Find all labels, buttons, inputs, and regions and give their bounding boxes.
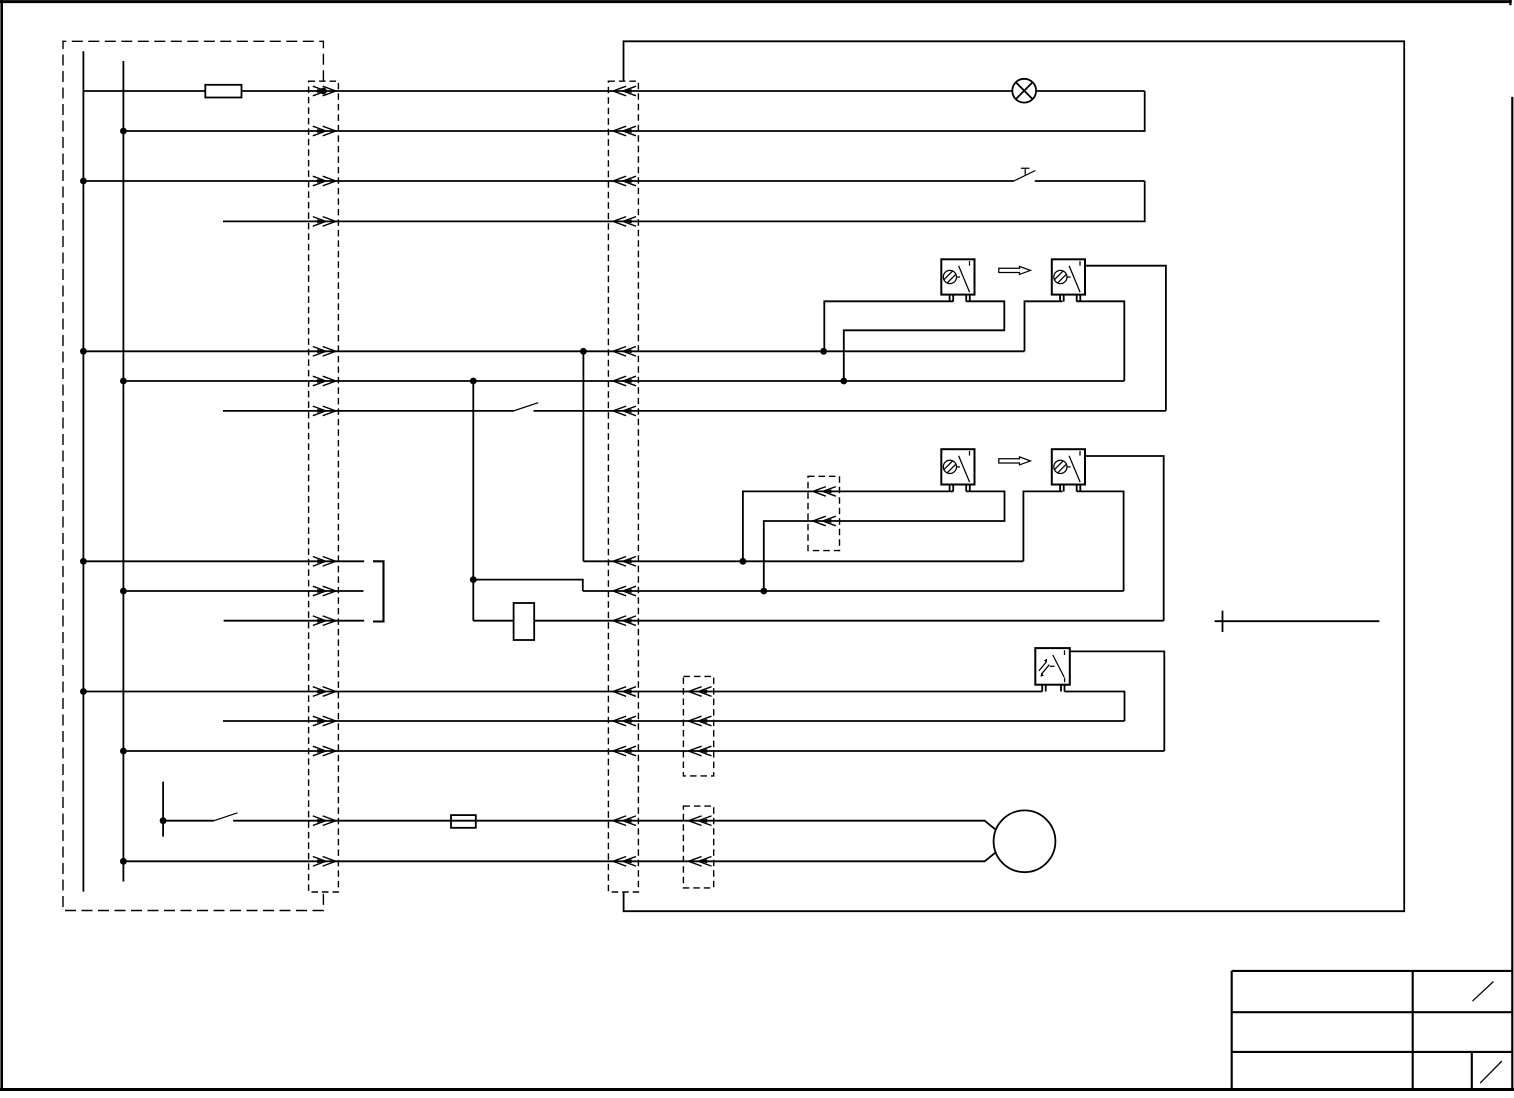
window-lift switch S6 [941,449,974,491]
title block slash (revision cell) [1473,982,1494,1002]
wire jog to row9 [473,580,583,591]
connector pin X1 r3 (arrow) [313,176,336,186]
motor M1 [994,810,1056,872]
reference cross mark [1215,611,1380,632]
wire row5 to switch S5 terminal a [1025,301,1063,351]
connector pin X2 r6 (arrow) [613,376,636,386]
connector pin X3b r14 (arrow) [689,816,712,826]
connector pin X2 r15 (arrow) [613,857,636,867]
actuation arrow (unit 1) [999,266,1031,274]
connector strip X1 (dashed) [309,81,339,892]
wire row 7 [223,410,1166,412]
sheet border left [0,0,3,1091]
wire row 8 [83,560,1023,562]
junction row5/link [580,348,587,355]
wire link row5 to row8 [582,351,584,561]
junction bus2/row13 [120,748,127,755]
connector pin X1 r2 (arrow) [313,126,336,136]
connector pin X2 r13 (arrow) [613,746,636,756]
child-lock switch S8 [1035,648,1070,691]
title block frame [1232,971,1513,1090]
connector pin X2 r2 (arrow) [613,126,636,136]
wire row 13 [123,750,1164,752]
sheet border right [1511,97,1513,1090]
wire row 15 (motor return) [123,851,997,861]
wire loop from X2 top around frame to X2 bottom [624,41,1405,911]
junction bus1/row3 [80,178,87,185]
connector pin X1 r8 (arrow) [313,557,336,567]
junction bus2/row6 [120,378,127,385]
wire switch S5 terminal b to row6 [1077,301,1125,381]
junction bus2/row9 [120,588,127,595]
connector pin X1 r15 (arrow) [313,857,336,867]
window-lift switch S5 [1052,259,1085,301]
connector pin X3a r13 (arrow) [689,746,712,756]
wire row 3 (switch feed) [83,180,1144,182]
wire row 11 [83,691,1042,693]
wire switch S8 terminal b to row12 [1065,692,1125,722]
connector pin X1 r12 (arrow) [313,716,336,726]
wire row 2 (lamp return) [123,91,1144,131]
bracket (rows 8-10 continue) [373,561,384,621]
junction switch S3 pole [160,817,167,824]
bus bar 2 (31) [122,61,124,882]
wire switch S8 output to row13 [1070,651,1165,751]
connector pin X3b r15 (arrow) [689,857,712,867]
connector pin X4 rowA (arrow) [813,487,836,497]
window-lift switch S4 [941,259,974,301]
connector pin X2 r8 (arrow) [613,557,636,567]
connector pin X2 r14 (arrow) [613,816,636,826]
connector pin X1 r13 (arrow) [313,746,336,756]
sheet border bottom [0,1088,1514,1091]
connector pin X2 r9 (arrow) [613,586,636,596]
switch S3 (row 14) [163,782,237,837]
connector pin X1 r9 (arrow) [313,586,336,596]
connector pin X1 r1 (arrow) [313,86,336,96]
harness region box (dashed, left) [63,41,323,910]
junction row1 at X1 [320,88,327,95]
wire row 6 [123,380,1124,382]
window-lift switch S7 [1052,449,1085,491]
connector strip X2 (dashed) [608,81,638,892]
wire row 10 [224,620,1164,622]
connector pin X3a r12 (arrow) [689,716,712,726]
connector pin X1 r4 (arrow) [313,217,336,227]
junction bus1/row11 [80,688,87,695]
wire row 5 [83,350,1024,352]
wire row 9 [123,590,1123,592]
junction row6/link [470,378,477,385]
relay coil K2 (row 10) [514,603,535,640]
wire switch S6 terminal a to row8 [743,491,953,561]
sheet border top-right tick [1509,0,1511,5]
connector pin X2 r11 (arrow) [613,687,636,697]
connector pin X3a r11 (arrow) [689,687,712,697]
title block slash (sheet cell) [1480,1061,1502,1083]
junction bus2/row2 [120,128,127,135]
connector pin X2 r10 (arrow) [613,616,636,626]
wire link row6 to row10 [472,381,474,621]
wire switch S5 output to row7 [1085,266,1166,411]
wire row8 to switch S7 terminal a [1023,491,1062,561]
connector pin X1 r10 (arrow) [313,616,336,626]
connector pin X2 r5 (arrow) [613,347,636,357]
connector pin X1 r7 (arrow) [313,406,336,416]
connector X3 segment B (dashed) [683,806,713,888]
wire switch S6 terminal b to row9 [764,491,1005,591]
fuse F1 (row 14) [451,815,476,828]
wire row5 to switch S4 terminal a [824,301,953,351]
wire row 14 (motor feed) [163,821,997,832]
junction row6/S4 branch [840,378,847,385]
wire row 1 (lamp feed) [83,90,1144,92]
connector pin X1 r11 (arrow) [313,687,336,697]
junction row8/S6 branch [740,558,747,565]
wire switch S7 output to row10 [1084,456,1163,621]
connector pin X1 r14 (arrow) [313,816,336,826]
wire row 4 (switch return) [223,181,1145,221]
connector pin X2 r12 (arrow) [613,716,636,726]
junction row9/S6 branch [760,588,767,595]
connector pin X4 rowB (arrow) [813,516,836,526]
junction bus1/row5 [80,348,87,355]
connector X3 segment A (dashed) [683,676,713,776]
connector pin X1 r5 (arrow) [313,347,336,357]
connector pin X2 r3 (arrow) [613,176,636,186]
switch S2 (row 7) [514,403,539,411]
junction row5/S4 branch [820,348,827,355]
connector pin X1 r6 (arrow) [313,376,336,386]
junction bus2/row15 [120,858,127,865]
switch S1 (push-button, row 3) [1014,168,1035,181]
connector X4 (dashed) [808,476,840,550]
connector pin X2 r7 (arrow) [613,406,636,416]
wire switch S4 terminal b to row6 [844,301,1005,381]
junction bus1/row8 [80,558,87,565]
bus bar 1 (30) [82,51,84,891]
actuation arrow (unit 2) [999,457,1031,465]
sheet border top [0,0,1512,3]
wire switch S7 terminal b to row9 [1077,491,1124,591]
junction link/row9 jog [470,576,477,583]
connector pin X2 r1 (arrow) [613,86,636,96]
connector pin X2 r4 (arrow) [613,217,636,227]
wire row 12 [223,720,1125,722]
resistor R1 [205,85,241,98]
lamp E1 [1012,79,1036,103]
